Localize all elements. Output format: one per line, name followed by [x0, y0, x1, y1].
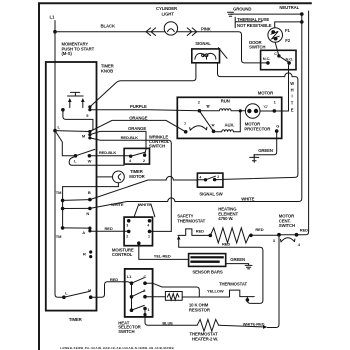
wire L2 right side from top to cent switch 4 — [297, 11, 309, 235]
thermostat heater 2W — [190, 319, 219, 341]
wire YEL-RED moisture to sensor bars — [139, 243, 189, 259]
svg-text:E: E — [291, 108, 294, 113]
svg-text:GREEN: GREEN — [258, 148, 273, 153]
wire M-S left contact elbow to M — [63, 110, 93, 132]
svg-text:2: 2 — [217, 175, 219, 179]
svg-text:RED-BLK: RED-BLK — [121, 135, 139, 140]
wire L to M contacts — [55, 130, 90, 133]
switch arm L junction to contact L — [55, 131, 74, 156]
vertical label WHITE — [290, 81, 294, 113]
svg-text:BLACK: BLACK — [101, 24, 116, 29]
ground symbol sensor — [245, 265, 252, 269]
wire signal left lead to timer contact 5 — [90, 63, 196, 107]
wire timer motor bottom to TM contacts — [63, 183, 119, 228]
svg-text:A: A — [82, 230, 85, 235]
aux winding — [215, 113, 240, 132]
svg-text:MOTOR: MOTOR — [129, 174, 145, 179]
svg-text:LAWBB-SEWB-PA-IAIAIB-HAB-IB-AB: LAWBB-SEWB-PA-IAIAIB-HAB-IB-AB-HAIAB-N-I… — [60, 346, 174, 350]
wire RED-BLK from W to wrinkle switch 4 — [89, 155, 130, 157]
thermal fuse F1/F2 — [268, 28, 291, 44]
svg-text:GREEN: GREEN — [230, 257, 245, 262]
wire element to cent switch 3 — [251, 234, 277, 236]
motor start switch arm B to A — [199, 111, 213, 132]
svg-text:NEUTRAL: NEUTRAL — [279, 5, 299, 10]
svg-text:SWITCH: SWITCH — [249, 45, 265, 50]
svg-text:I: I — [292, 93, 293, 98]
wire fuse to door switch C — [275, 42, 279, 55]
svg-text:RED: RED — [222, 242, 230, 247]
wire heat selector 2 to resistor — [145, 296, 165, 298]
svg-text:YEL-RED: YEL-RED — [154, 253, 171, 258]
svg-text:THERMAL FUSE: THERMAL FUSE — [237, 17, 269, 22]
wire PINK from lamp to door switch N.C. — [176, 32, 266, 63]
svg-text:RED: RED — [255, 227, 263, 232]
svg-text:ORANGE: ORANGE — [129, 115, 147, 120]
svg-text:HEATER-2 W.: HEATER-2 W. — [192, 336, 218, 341]
svg-text:C: C — [274, 52, 277, 56]
sensor bars — [189, 254, 226, 275]
wire NEUTRAL bus top — [231, 13, 302, 15]
svg-text:CONTROL: CONTROL — [112, 252, 133, 257]
wire white from N.O. down to motor C junction — [288, 63, 291, 111]
motor box U1 — [177, 90, 281, 138]
connector chevrons right of lamp — [187, 28, 197, 36]
svg-text:'A': 'A' — [211, 123, 216, 128]
wire L1 bus down timer — [55, 32, 64, 298]
wire resistor to yellow junction — [182, 296, 199, 298]
ground symbol motor — [250, 155, 259, 163]
svg-text:NOT RESETABLE: NOT RESETABLE — [237, 23, 272, 28]
motor protector — [244, 104, 271, 132]
svg-text:W: W — [290, 81, 294, 86]
timer contact M — [82, 130, 92, 140]
wire RED-BLK from M down to moisture control 1 — [90, 138, 171, 232]
wire GREEN from G to ground — [254, 131, 277, 157]
wire ORANGE lower from M to wrinkle switch 2 — [90, 131, 146, 155]
wire YELLOW to operating thermostat — [199, 296, 229, 298]
safety thermostat — [177, 214, 209, 240]
wire timer motor left stub — [97, 176, 113, 178]
connector chevrons left of lamp — [146, 28, 156, 36]
svg-text:G: G — [276, 124, 279, 129]
svg-text:PURPLE: PURPLE — [130, 104, 147, 109]
svg-text:'C': 'C' — [263, 104, 268, 109]
heating element 4750W — [209, 207, 253, 247]
wire RED from H to heat selector L1 — [91, 282, 132, 297]
svg-text:SIGNAL: SIGNAL — [195, 41, 211, 46]
svg-text:SWITCH: SWITCH — [279, 223, 295, 228]
svg-text:PINK: PINK — [201, 26, 212, 31]
timer box — [46, 62, 115, 322]
svg-text:RED-BLK: RED-BLK — [99, 150, 117, 155]
svg-text:TM: TM — [56, 234, 62, 239]
timer motor TM — [113, 169, 146, 183]
svg-text:R: R — [83, 251, 86, 256]
svg-text:B: B — [88, 190, 91, 195]
wire red lower from safety thermostat to thermostat junction — [179, 240, 263, 304]
svg-text:AUX.: AUX. — [225, 122, 235, 127]
svg-text:LIGHT: LIGHT — [162, 12, 175, 17]
run winding — [201, 98, 245, 110]
ground symbol at neutral — [228, 6, 252, 16]
operating thermostat — [219, 281, 254, 296]
svg-text:PROTECTOR: PROTECTOR — [244, 126, 271, 131]
svg-text:THERMOSTAT: THERMOSTAT — [219, 281, 247, 286]
svg-text:H: H — [291, 87, 294, 92]
junction dot thermostat — [246, 298, 250, 302]
wire white upper bus from timer B through signal switch — [90, 176, 197, 199]
wire ORANGE upper from M to motor 7 — [90, 120, 186, 131]
label momentary push to start — [62, 41, 95, 56]
svg-text:N: N — [86, 211, 89, 216]
heat selector switch — [118, 269, 152, 334]
motor terminal A — [212, 130, 216, 134]
wire GREEN sensor to ground — [226, 264, 249, 266]
timer contacts L H bottom — [62, 288, 92, 300]
momentary switch M-S — [61, 92, 91, 118]
svg-text:1: 1 — [148, 234, 150, 238]
svg-text:'B': 'B' — [206, 103, 211, 108]
svg-text:THERMOSTAT: THERMOSTAT — [177, 218, 205, 223]
timer contact R unused — [83, 250, 92, 258]
wire L1 drop to junction — [54, 21, 56, 32]
wire heat selector C to yellow junction — [145, 283, 199, 297]
wire moisture 1 to red-blk vertical — [150, 230, 172, 232]
wire signal right lead to signal switch bus (hops over white wire) — [218, 63, 298, 180]
svg-text:GROUND: GROUND — [233, 6, 251, 11]
svg-text:C: C — [144, 274, 147, 279]
arc 7 to A — [190, 126, 207, 130]
wire protector to motor C terminal 1 — [260, 110, 289, 112]
leader line WHITE label right — [151, 204, 155, 217]
svg-text:2: 2 — [126, 234, 128, 238]
svg-text:CYLINDER: CYLINDER — [156, 6, 178, 11]
svg-text:KNOB: KNOB — [101, 69, 113, 74]
junction dot run/aux — [239, 109, 242, 112]
svg-text:SWITCH: SWITCH — [149, 144, 165, 149]
svg-text:F1: F1 — [285, 28, 291, 33]
svg-text:N.C.: N.C. — [263, 56, 271, 61]
svg-text:TIMER: TIMER — [69, 317, 83, 322]
svg-text:RED: RED — [105, 226, 113, 231]
svg-text:4750 W.: 4750 W. — [218, 216, 233, 221]
svg-text:WHITE: WHITE — [111, 202, 124, 207]
signal lamp coil — [192, 41, 227, 63]
svg-text:F2: F2 — [285, 38, 291, 43]
cylinder light lamp — [156, 6, 178, 35]
connector arrow white-red — [263, 325, 267, 329]
signal switch — [197, 173, 223, 196]
wire WHITE neutral bus right side — [90, 14, 302, 208]
svg-text:RUN: RUN — [221, 98, 230, 103]
wrinkle control switch — [124, 134, 170, 164]
wire RED timer A to moisture 2 — [91, 230, 129, 232]
wire fuse F1 to neutral bus — [275, 22, 302, 28]
border frame — [39, 3, 312, 350]
timer contacts L W — [74, 149, 95, 163]
svg-text:WHITE-RED: WHITE-RED — [243, 321, 265, 326]
svg-text:ORANGE: ORANGE — [128, 126, 146, 131]
svg-text:RED: RED — [300, 228, 308, 233]
wire WHITE-RED from heater to cent switch 3 — [219, 325, 263, 327]
label thermal fuse callout — [235, 17, 271, 28]
wire BLACK from L1 to cylinder light — [55, 31, 165, 33]
svg-text:TM: TM — [56, 190, 62, 195]
timer contacts TM B N A — [56, 190, 92, 239]
door switch — [249, 40, 296, 70]
svg-text:L1: L1 — [50, 15, 56, 20]
svg-text:YELLOW: YELLOW — [207, 289, 224, 294]
wire heat selector 1 to blue — [145, 309, 197, 326]
svg-text:SIGNAL SW: SIGNAL SW — [199, 191, 223, 196]
motor centrifugal switch — [273, 213, 308, 247]
junction dot L1 — [53, 30, 57, 34]
wire PURPLE from timer 5 to motor B — [90, 110, 199, 111]
leader line WHITE label left — [134, 204, 139, 217]
svg-text:RED: RED — [196, 228, 204, 233]
junction dot L on bus — [53, 129, 57, 133]
svg-text:W: W — [88, 159, 92, 164]
svg-text:4: 4 — [147, 223, 149, 227]
svg-text:SENSOR BARS: SENSOR BARS — [192, 269, 222, 274]
svg-text:T: T — [291, 101, 294, 106]
svg-text:4: 4 — [199, 176, 201, 180]
svg-text:3: 3 — [126, 223, 128, 227]
resistor 10K — [165, 292, 210, 313]
svg-text:SWITCH: SWITCH — [118, 329, 134, 334]
junction dot neutral 2 — [300, 20, 304, 24]
junction dot neutral 1 — [300, 12, 304, 16]
svg-text:(M-S): (M-S) — [62, 51, 73, 56]
svg-text:RED: RED — [110, 277, 118, 282]
wire from L contact under to wrinkle box — [69, 157, 124, 166]
svg-text:BLUE: BLUE — [162, 320, 173, 325]
svg-text:WHITE: WHITE — [139, 202, 152, 207]
svg-text:MOTOR: MOTOR — [258, 90, 274, 95]
svg-text:WHITE: WHITE — [241, 196, 254, 201]
svg-text:RESISTOR: RESISTOR — [189, 307, 211, 312]
moisture control — [112, 217, 153, 257]
motor terminal 2 B — [198, 109, 202, 113]
